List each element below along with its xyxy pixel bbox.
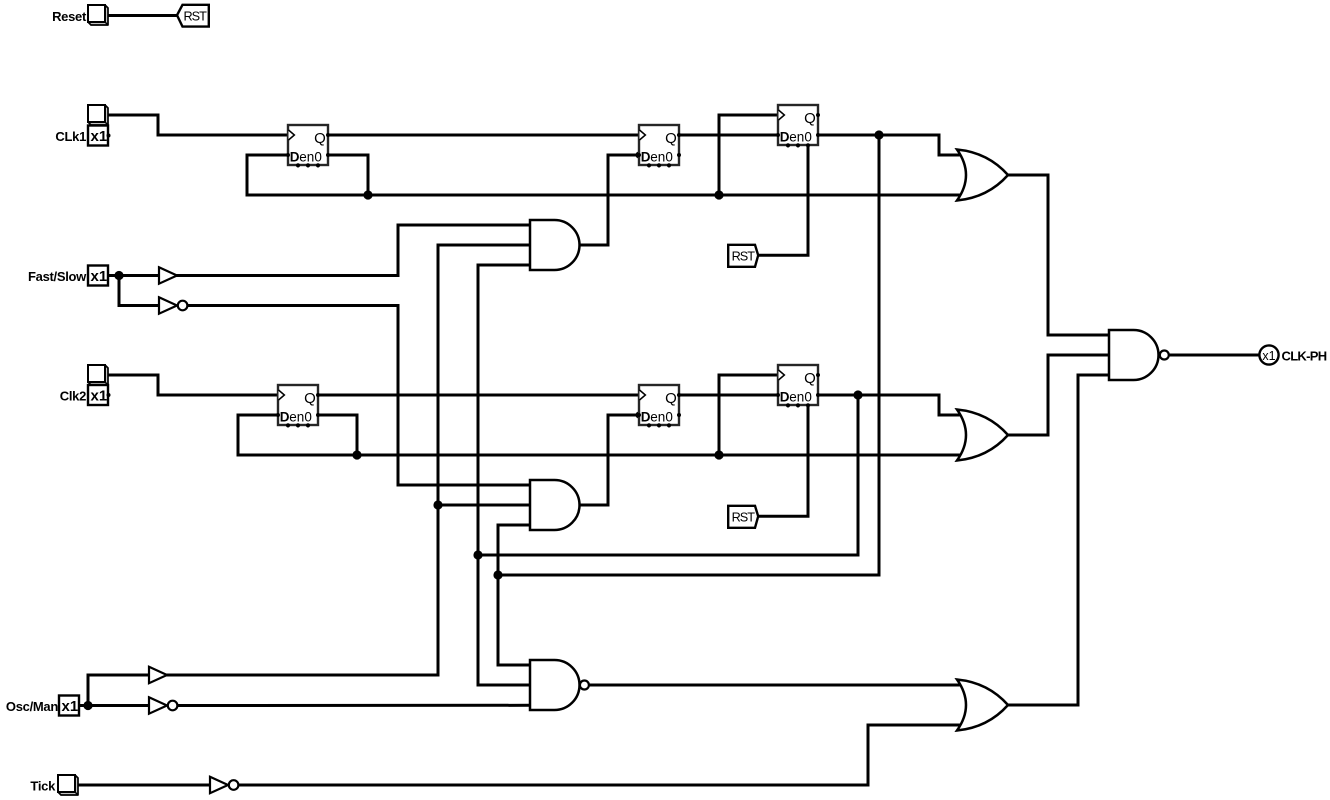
wire Fast/Slow branch down to inverter <box>119 276 160 306</box>
flip-flop FF5 <box>637 385 681 428</box>
wire NAND3 output to OR3 upper input <box>589 684 962 687</box>
flip-flop FF6 <box>776 365 820 408</box>
button Clk1 <box>88 105 108 125</box>
wire end dot at FF5 D <box>636 412 643 419</box>
svg-text:Tick: Tick <box>30 779 56 794</box>
wire FF1 Q to FF2 clock <box>327 134 640 137</box>
junction x=438 to AND2 input2 <box>433 500 442 509</box>
wire FF3 Qbar to OR1 upper input <box>817 135 962 155</box>
wire OR3 output up x=1078 to NAND bottom input <box>1007 375 1110 705</box>
wire AND1 input3 down x=478 to NAND3 input2 <box>478 265 531 685</box>
svg-text:Osc/Man: Osc/Man <box>6 699 58 714</box>
wire FF4 Qbar down to y=455 bus <box>317 415 357 457</box>
junction FF6 clock tap on y=455 bus <box>714 450 723 459</box>
wire x=438 branch to AND2 input2 <box>438 504 531 507</box>
inverter Osc/Man <box>149 697 177 713</box>
wire FF6 Qbar branch down x=858 to y=555 to AND1/NAND3 column <box>478 396 858 555</box>
wire FF1 Qbar down to y=195 bus <box>327 155 368 197</box>
wire AND2 input3 down x=498 to NAND3 input1 <box>498 525 531 665</box>
wire FF4 Q to FF5 clock <box>317 394 640 397</box>
wire Fast/Slow buffer out to AND1 input1 <box>176 225 531 276</box>
pin Clk1 stub <box>107 134 111 138</box>
wire FF1 D feedback and y=195 bus to OR1 lower input <box>247 155 962 195</box>
tunnel RST top <box>177 5 209 27</box>
button Reset <box>88 5 108 25</box>
output pin CLK-PH <box>1259 345 1278 364</box>
inverter Fast/Slow <box>159 297 187 313</box>
junction FF6 Qbar node x=858 <box>853 390 862 399</box>
wire RST tunnel 1 to FF3 reset pin <box>757 146 808 255</box>
flip-flop FF4 <box>276 385 320 428</box>
wire FF4 D feedback and y=455 bus to OR2 lower input <box>238 415 962 455</box>
wire Fast/Slow pin to buffer <box>107 274 160 277</box>
svg-text:RST: RST <box>732 249 756 263</box>
tunnel RST mid2 <box>728 506 758 528</box>
wire Tick button to inverter <box>77 784 211 787</box>
buffer Osc/Man <box>149 667 167 683</box>
pin Clk2 stub <box>107 393 111 397</box>
wire Osc/Man pin to inverter <box>78 704 151 707</box>
junction Osc/Man pin split <box>83 701 92 710</box>
junction at FF4 feedback on y=455 bus <box>352 450 361 459</box>
wire AND1 output to FF2 D <box>578 155 639 245</box>
svg-text:Clk2: Clk2 <box>60 389 86 404</box>
svg-text:x1: x1 <box>1262 349 1275 363</box>
inverter Tick <box>210 777 238 793</box>
wire FF6 Qbar to OR2 upper input <box>817 395 962 415</box>
OR gate OR3 <box>957 680 1008 731</box>
pin Osc/Man x1 <box>59 696 79 716</box>
wire FF2 Q to FF3 D <box>678 134 779 137</box>
wire FF6 clock from y=455 bus <box>719 375 779 456</box>
buffer Fast/Slow <box>159 267 177 283</box>
OR gate OR2 <box>957 410 1008 461</box>
wire FF3 Qbar branch down x=879 to y=575 to AND2/NAND3 column <box>498 136 879 575</box>
junction x=478 y=555 <box>473 550 482 559</box>
AND gate AND1 <box>530 220 580 270</box>
NAND gate NAND3 lower <box>530 660 589 710</box>
wire Clk1 button to FF1 clock <box>107 115 289 135</box>
wire NAND output to CLK-PH pin <box>1168 354 1260 357</box>
svg-text:RST: RST <box>184 9 208 23</box>
tunnel RST mid1 <box>728 245 758 267</box>
wire FF3 clock from y=195 bus <box>719 115 779 196</box>
wire Reset to RST tunnel <box>108 14 178 17</box>
junction FF3 Qbar node x=879 <box>874 130 883 139</box>
button Tick <box>58 775 78 795</box>
junction Fast/Slow pin split <box>114 271 123 280</box>
wire OR1 output to NAND top input <box>1007 175 1110 335</box>
button Clk2 <box>88 365 108 385</box>
junction FF3 clock tap on y=195 bus <box>714 190 723 199</box>
junction x=498 y=575 <box>493 570 502 579</box>
wire Osc/Man inverter out to NAND3 input3 <box>178 704 531 707</box>
wire Clk2 button to FF4 clock <box>107 375 279 395</box>
svg-text:CLK-PH: CLK-PH <box>1282 349 1327 364</box>
pin Clk2 x1 <box>88 385 108 405</box>
svg-text:Reset: Reset <box>52 9 87 24</box>
svg-text:RST: RST <box>732 510 756 524</box>
flip-flop FF3 <box>776 105 820 148</box>
junction at FF1 feedback on y=195 bus <box>363 190 372 199</box>
wire OR2 output to NAND middle input <box>1007 355 1110 435</box>
wire FF5 Q to FF6 D <box>678 394 779 397</box>
OR gate OR1 <box>957 150 1008 201</box>
AND gate AND2 <box>530 480 580 530</box>
wire Tick inverter out up x=868 to OR3 lower input <box>238 725 962 785</box>
svg-text:Fast/Slow: Fast/Slow <box>28 269 87 284</box>
flip-flop FF1 <box>286 125 330 168</box>
wire Fast/Slow inverter out to AND2 input1 <box>188 306 532 486</box>
pin Fast/Slow x1 <box>88 266 108 286</box>
wire RST tunnel 2 to FF6 reset pin <box>757 406 808 516</box>
wire AND2 output to FF5 D <box>578 415 639 505</box>
NAND gate NAND2 output stage <box>1109 330 1169 380</box>
wire end dot at FF2 D <box>636 152 643 159</box>
pin Clk1 x1 <box>88 126 108 146</box>
wire Osc/Man branch up to buffer <box>88 675 151 706</box>
flip-flop FF2 <box>637 125 681 168</box>
svg-text:CLk1: CLk1 <box>55 129 86 144</box>
wire Osc/Man buffer out up x=438 to AND1 input2 <box>166 245 531 675</box>
